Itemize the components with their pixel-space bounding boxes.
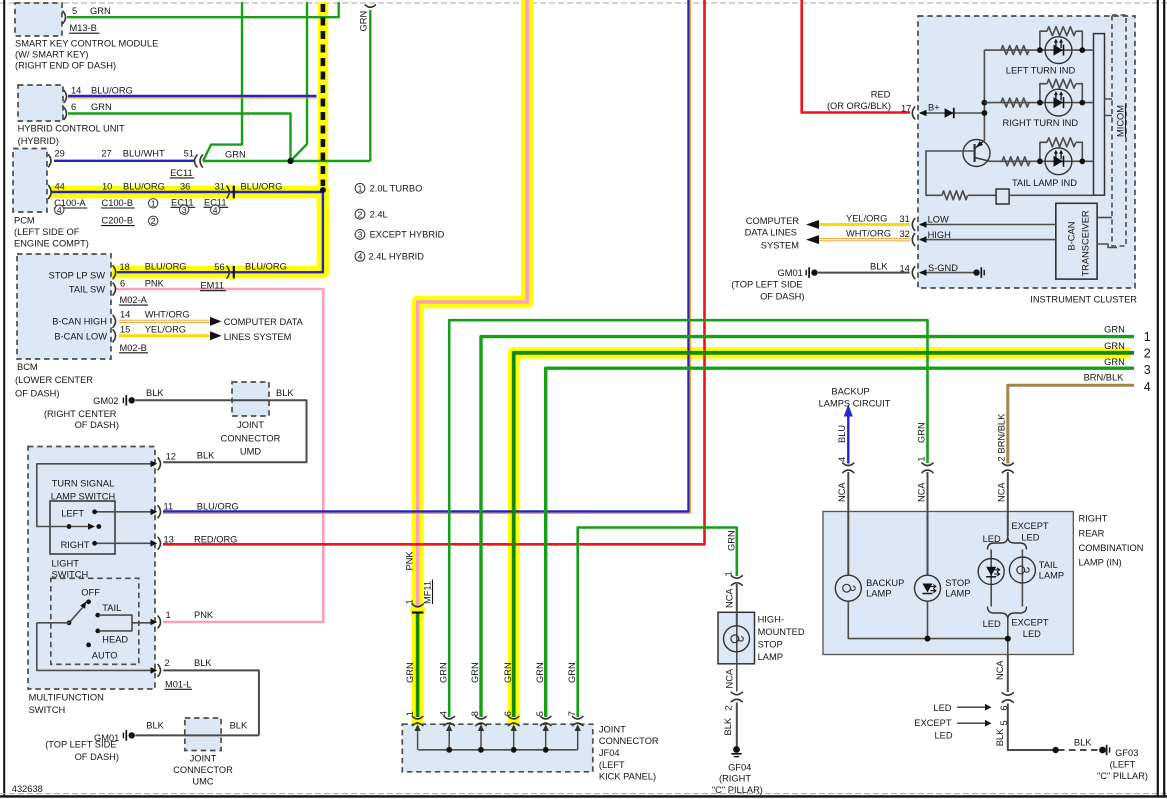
svg-text:M02-B: M02-B	[120, 343, 147, 353]
svg-text:LIGHT: LIGHT	[52, 559, 80, 569]
svg-text:4: 4	[358, 252, 363, 262]
svg-text:BRN/BLK: BRN/BLK	[1084, 373, 1125, 383]
connector BCM pin6	[113, 283, 116, 295]
svg-text:PNK: PNK	[145, 279, 165, 289]
node B+ junction	[982, 110, 988, 116]
connector BCM pin18	[113, 266, 116, 279]
wire pin11 orange stripe	[163, 0, 690, 513]
wire hmsl through bulb	[736, 626, 738, 692]
svg-text:CONNECTOR: CONNECTOR	[173, 765, 233, 775]
svg-text:LAMP: LAMP	[866, 589, 891, 599]
highlight blob junction dashed line	[316, 185, 330, 199]
svg-text:BACKUP: BACKUP	[866, 578, 904, 588]
connector JF04 pin5	[541, 716, 551, 725]
wire TAIL HEAD to pin1	[99, 615, 152, 631]
highlight band GRN circuit 2	[514, 353, 1130, 717]
svg-text:1: 1	[724, 571, 734, 576]
svg-text:CONNECTOR: CONNECTOR	[221, 433, 281, 443]
svg-text:DATA LINES: DATA LINES	[745, 227, 797, 237]
svg-text:COMBINATION: COMBINATION	[1079, 543, 1144, 553]
label stop lamp	[945, 578, 970, 599]
node turn signal wiper tip	[96, 524, 101, 529]
wire GRN branch to top via x307	[291, 2, 307, 161]
highlight band dashed continuation line	[318, 2, 329, 190]
wire light switch common to pin2	[37, 623, 152, 671]
svg-text:TRANSCEIVER: TRANSCEIVER	[1081, 210, 1091, 276]
label pin12	[166, 451, 216, 462]
transistor Q1	[963, 140, 990, 167]
label GM02	[44, 396, 119, 430]
node light switch pivot	[67, 620, 72, 625]
svg-text:1: 1	[166, 610, 171, 620]
svg-text:ENGINE COMPT): ENGINE COMPT)	[14, 238, 89, 248]
svg-text:GRN: GRN	[535, 662, 545, 683]
svg-text:432638: 432638	[12, 784, 43, 794]
svg-text:LAMPS CIRCUIT: LAMPS CIRCUIT	[819, 399, 891, 409]
node AUTO contact	[86, 643, 91, 648]
wire GRN JF04 pin4 loop to stop lamp feed	[449, 320, 927, 717]
svg-text:4: 4	[439, 711, 449, 716]
wire RED/ORG turn signal pin13	[163, 0, 705, 544]
connector EM11 inline	[227, 266, 234, 278]
svg-text:STOP: STOP	[945, 578, 970, 588]
label PCM pin29 row	[55, 149, 246, 178]
label GRN JF04 pin5	[535, 662, 545, 716]
svg-text:11: 11	[164, 502, 174, 512]
wire YEL/ORG B-CAN LOW bcm side	[119, 334, 210, 337]
node tail row left	[1037, 158, 1043, 164]
turn signal lamp switch box	[50, 501, 115, 554]
svg-text:GRN: GRN	[1104, 357, 1125, 367]
BCM box	[17, 254, 111, 359]
wire S-GND internal	[920, 272, 975, 274]
node right turn right	[1079, 100, 1085, 106]
wire BLK cluster S-GND pin14	[818, 272, 910, 274]
label pin11	[164, 502, 239, 512]
label UMD wires	[146, 388, 294, 398]
connector JF04 pin8	[476, 716, 486, 725]
connector JF04 pin7	[573, 716, 583, 725]
svg-text:5: 5	[72, 6, 77, 16]
wire GRN below MF11 to JF04 pin1	[416, 613, 420, 717]
node dashed line junction	[320, 187, 326, 193]
node left turn right	[1079, 47, 1085, 53]
svg-text:NCA: NCA	[996, 482, 1006, 502]
highlight band BLU/ORG circuit	[50, 192, 323, 272]
instrument cluster box	[918, 16, 1135, 288]
label S-GND pin14	[870, 261, 958, 273]
svg-text:14: 14	[120, 309, 130, 319]
svg-text:(LEFT: (LEFT	[1110, 760, 1136, 770]
right rear combination lamp box	[823, 512, 1073, 655]
label high mounted stop lamp	[758, 615, 805, 663]
svg-text:36: 36	[180, 181, 190, 191]
wire tail LED branch	[990, 550, 992, 607]
label RED wire	[827, 89, 891, 111]
highlight blob connector MF11	[410, 603, 425, 618]
diode B+	[945, 108, 954, 118]
svg-text:6: 6	[120, 279, 125, 289]
label LOW pin31	[846, 213, 949, 224]
label GRN right edge 3	[1104, 357, 1151, 377]
svg-text:TAIL: TAIL	[102, 603, 121, 613]
LED right turn indicator	[1045, 89, 1072, 116]
wire GRN JF04 pin7 to high mounted stop lamp	[578, 528, 737, 718]
resistor left turn	[1001, 46, 1029, 55]
label backup lamp	[866, 578, 904, 599]
connector tail feed	[1002, 463, 1013, 473]
svg-text:MF11: MF11	[423, 581, 433, 604]
brace tail lamp merge bottom	[988, 607, 1027, 620]
svg-text:S-GND: S-GND	[928, 263, 958, 273]
label GM01 top	[731, 268, 804, 301]
svg-text:TAIL LAMP IND: TAIL LAMP IND	[1012, 178, 1077, 188]
label circled 3	[180, 205, 189, 215]
svg-text:BLK: BLK	[870, 261, 888, 271]
label right rear combination lamp	[1079, 514, 1144, 568]
highlight blob JF04 pin6	[508, 714, 520, 726]
svg-text:GRN: GRN	[503, 662, 513, 683]
wire BLU/WHT PCM pin29	[54, 160, 195, 162]
label circled 4 under EC11	[211, 205, 220, 215]
svg-text:3: 3	[358, 230, 363, 240]
connector hybrid pin14	[64, 91, 67, 103]
svg-text:GM01: GM01	[778, 268, 803, 278]
label GM01 bottom	[45, 733, 119, 762]
label LED except LED bottom	[983, 617, 1049, 639]
svg-text:OF DASH): OF DASH)	[75, 420, 119, 430]
wire BLK GM02 to UMD to pin12	[135, 400, 306, 462]
right turn bypass resistor loop	[1040, 79, 1082, 102]
svg-text:GRN: GRN	[359, 11, 369, 32]
wire NCA stop below connector	[927, 472, 929, 576]
connector PCM pin44	[49, 186, 52, 199]
svg-text:YEL/ORG: YEL/ORG	[846, 213, 887, 223]
svg-text:1: 1	[358, 183, 363, 193]
backup lamps circuit arrow	[844, 405, 853, 417]
svg-text:EXCEPT: EXCEPT	[914, 718, 952, 728]
label joint connector UMD	[221, 420, 281, 456]
svg-text:GRN: GRN	[1104, 325, 1125, 335]
highlight blob connector 31	[224, 185, 239, 200]
svg-text:NCA: NCA	[917, 482, 927, 502]
connector M13-B pin5	[63, 11, 66, 23]
svg-text:LEFT TURN IND: LEFT TURN IND	[1006, 65, 1076, 75]
svg-text:1: 1	[1144, 330, 1151, 344]
arrow into pin32	[919, 236, 927, 243]
svg-text:B-CAN HIGH: B-CAN HIGH	[52, 317, 107, 327]
svg-text:BLU/ORG: BLU/ORG	[145, 261, 187, 271]
label GF04	[712, 763, 763, 795]
label GF03	[1097, 748, 1148, 781]
svg-text:GM02: GM02	[93, 396, 118, 406]
svg-text:COMPUTER DATA: COMPUTER DATA	[224, 317, 304, 327]
svg-text:5: 5	[999, 720, 1009, 725]
label circled 4 under C100-A	[55, 205, 64, 215]
label circled 1	[149, 198, 158, 208]
label hybrid pins	[71, 85, 133, 112]
svg-text:(W/ SMART KEY): (W/ SMART KEY)	[15, 50, 89, 60]
connector multifunction pin1	[151, 616, 161, 628]
svg-text:UMD: UMD	[240, 446, 261, 456]
label GRN JF04 pin8	[470, 662, 480, 716]
label GRN right edge 1	[1104, 325, 1151, 344]
label PCM pin44 row	[55, 181, 283, 191]
ground S-GND	[973, 267, 984, 278]
svg-text:12: 12	[166, 452, 176, 462]
svg-text:10: 10	[102, 181, 112, 191]
svg-text:(HYBRID): (HYBRID)	[18, 136, 59, 146]
svg-text:LED: LED	[933, 703, 951, 713]
node bus tail	[1005, 636, 1011, 642]
node RIGHT contact	[92, 541, 97, 546]
svg-text:15: 15	[120, 324, 130, 334]
svg-text:LAMP: LAMP	[758, 652, 783, 662]
wire GRN JF04 pin6 highlighted to right edge 2	[514, 353, 1134, 717]
connector cluster pin32	[912, 234, 915, 246]
svg-text:2: 2	[997, 456, 1007, 461]
smart key control module box	[15, 3, 62, 36]
label MICOM rotated	[1116, 105, 1126, 138]
light switch box	[51, 578, 139, 664]
label legend engine variants	[355, 183, 445, 261]
square element	[996, 189, 1009, 204]
label BCM b-can high row	[52, 309, 303, 327]
svg-text:LAMP (IN): LAMP (IN)	[1079, 558, 1122, 568]
label multifunction switch	[29, 693, 104, 716]
svg-text:NCA: NCA	[725, 588, 735, 608]
svg-text:JF04: JF04	[599, 748, 620, 758]
wire WHT/ORG cluster HIGH pin32	[819, 239, 910, 241]
wire NCA combination lamp ground lead	[1008, 655, 1056, 750]
svg-text:SMART KEY CONTROL MODULE: SMART KEY CONTROL MODULE	[15, 38, 158, 48]
svg-text:GRN: GRN	[225, 150, 246, 160]
connector cluster pin31	[912, 219, 915, 231]
svg-text:BACKUP: BACKUP	[831, 386, 869, 396]
svg-text:2: 2	[358, 209, 363, 219]
wire cluster collector bus vertical	[983, 50, 985, 140]
svg-text:BLK: BLK	[276, 388, 294, 398]
JF04 pin arrows	[414, 724, 581, 750]
page frame right double	[1157, 0, 1159, 797]
svg-text:GRN: GRN	[1104, 341, 1125, 351]
svg-text:7: 7	[567, 711, 577, 716]
svg-text:(RIGHT CENTER: (RIGHT CENTER	[44, 409, 117, 419]
svg-text:C200-B: C200-B	[102, 216, 134, 226]
connector JF04 pin4	[444, 716, 454, 725]
svg-text:4: 4	[213, 205, 218, 215]
wire BRN/BLK tail lamp to right edge 4	[1008, 385, 1134, 463]
svg-text:B-CAN: B-CAN	[1067, 222, 1077, 251]
svg-text:KICK PANEL): KICK PANEL)	[599, 771, 656, 781]
svg-text:COMPUTER: COMPUTER	[746, 216, 799, 226]
label GRN JF04 pin7	[567, 662, 577, 716]
wire GRN pin51 EC11 horizontal	[203, 160, 370, 162]
connector top edge GRN	[365, 5, 375, 7]
svg-text:44: 44	[55, 181, 65, 191]
svg-text:(RIGHT END OF DASH): (RIGHT END OF DASH)	[15, 61, 116, 71]
svg-text:(LEFT SIDE OF: (LEFT SIDE OF	[14, 227, 80, 237]
wire PNK tail sw pin6 loop	[116, 289, 323, 622]
svg-text:CONNECTOR: CONNECTOR	[599, 736, 659, 746]
node right turn branch	[982, 100, 988, 106]
svg-text:1: 1	[405, 711, 415, 716]
arrow LED pin6	[957, 704, 992, 711]
brace tail lamp split top	[988, 537, 1027, 550]
svg-text:BLK: BLK	[146, 388, 164, 398]
wire GRN smart key pin5	[67, 2, 339, 17]
wire WHT/ORG B-CAN HIGH bcm side	[119, 320, 210, 322]
tail bypass resistor loop	[1040, 138, 1082, 162]
svg-text:13: 13	[164, 534, 174, 544]
label HIGH pin32	[846, 229, 951, 240]
connector hybrid pin6	[64, 108, 67, 120]
wire BLU/ORG turn signal pin11	[163, 0, 689, 512]
connector 31 inline	[227, 186, 234, 198]
wire GRN hybrid pin6	[68, 114, 291, 162]
svg-text:JOINT: JOINT	[599, 724, 626, 734]
wire backup lamp to bus	[848, 601, 1008, 639]
svg-text:6: 6	[503, 711, 513, 716]
wire BLK hmsl to GF04	[736, 703, 738, 747]
svg-text:NCA: NCA	[995, 660, 1005, 680]
left turn row wire	[984, 49, 1093, 51]
micom bus bar	[1094, 34, 1105, 196]
label B-CAN transceiver rotated	[1067, 210, 1091, 276]
node turn signal common	[67, 524, 72, 529]
svg-text:M02-A: M02-A	[120, 295, 148, 305]
svg-text:JOINT: JOINT	[190, 754, 217, 764]
ground GM01 top	[806, 267, 818, 278]
svg-text:LED: LED	[935, 731, 953, 741]
label circled 2	[149, 216, 158, 226]
node right turn left	[1037, 100, 1043, 106]
svg-text:BLK: BLK	[146, 720, 164, 730]
svg-text:LED: LED	[983, 534, 1001, 544]
connector combination ground lead	[1002, 693, 1013, 703]
svg-text:BLU/ORG: BLU/ORG	[197, 502, 239, 512]
wire pin12 internal common	[37, 464, 152, 527]
svg-text:1: 1	[151, 198, 156, 208]
ground GM01 bottom	[123, 730, 134, 741]
svg-text:GRN: GRN	[727, 530, 737, 551]
left turn bypass resistor loop	[1040, 27, 1082, 50]
joint connector UMD box	[232, 382, 269, 416]
svg-text:2: 2	[1144, 347, 1151, 361]
svg-text:BLK: BLK	[723, 717, 733, 735]
svg-text:(TOP LEFT SIDE: (TOP LEFT SIDE	[731, 279, 802, 289]
label UMC wires	[146, 720, 248, 730]
label EXCEPT LED arrow pin5	[914, 718, 953, 741]
wire cluster B+ internal	[920, 112, 984, 114]
connector cluster pin17	[912, 107, 915, 119]
bulb tail lamp	[1009, 557, 1035, 583]
LED stop lamp	[915, 575, 941, 601]
svg-text:LED: LED	[1023, 629, 1041, 639]
wire BLK multifunction pin2 to UMC to GM01	[135, 670, 259, 735]
micom tab upper	[1105, 99, 1113, 116]
svg-text:BLU/WHT: BLU/WHT	[123, 149, 165, 159]
svg-text:2: 2	[165, 658, 170, 668]
label pin17 B+	[901, 103, 940, 114]
arrow computer data lines top	[210, 317, 222, 326]
svg-text:LAMP SWITCH: LAMP SWITCH	[51, 491, 115, 501]
connector JF04 pin6	[509, 716, 519, 725]
arrow EXCEPT LED pin5	[957, 720, 992, 727]
connector BCM pin14	[113, 315, 116, 327]
label MF11 rotated	[423, 580, 433, 605]
svg-text:RIGHT TURN IND: RIGHT TURN IND	[1003, 118, 1079, 128]
svg-text:17: 17	[901, 103, 911, 113]
svg-text:HIGH-: HIGH-	[758, 615, 784, 625]
B-CAN transceiver box	[1056, 203, 1097, 279]
svg-text:LOW: LOW	[928, 215, 949, 225]
connector stop feed	[922, 463, 933, 473]
wire NCA tail below connector	[1007, 472, 1009, 536]
svg-text:AUTO: AUTO	[92, 651, 118, 661]
light switch lever	[69, 601, 87, 623]
hybrid control unit box	[18, 85, 63, 121]
svg-text:TURN SIGNAL: TURN SIGNAL	[52, 479, 115, 489]
LED tail lamp	[978, 559, 1004, 585]
svg-text:TAIL: TAIL	[1039, 560, 1058, 570]
bulb backup lamp	[835, 575, 861, 601]
svg-text:REAR: REAR	[1079, 528, 1105, 538]
tail lamp row wire	[989, 160, 1094, 162]
resistor right turn	[1001, 98, 1029, 107]
svg-text:MULTIFUNCTION: MULTIFUNCTION	[29, 693, 104, 703]
wire tail bulb branch	[1021, 550, 1023, 607]
wire BLU/ORG pin14 orange stripe	[68, 97, 317, 99]
svg-text:MICOM: MICOM	[1116, 105, 1126, 137]
svg-text:(LOWER CENTER: (LOWER CENTER	[15, 375, 93, 385]
svg-text:GRN: GRN	[470, 662, 480, 683]
label turn signal lamp switch	[51, 479, 115, 502]
svg-text:14: 14	[71, 85, 81, 95]
svg-text:4: 4	[57, 205, 62, 215]
svg-text:HYBRID CONTROL UNIT: HYBRID CONTROL UNIT	[18, 124, 125, 134]
svg-text:MOUNTED: MOUNTED	[758, 627, 805, 637]
ground GF03	[1099, 745, 1110, 755]
svg-text:(OR ORG/BLK): (OR ORG/BLK)	[827, 101, 891, 111]
label joint connector JF04	[599, 724, 659, 781]
svg-text:C100-B: C100-B	[102, 198, 134, 208]
svg-text:LAMP: LAMP	[1039, 570, 1064, 580]
svg-text:29: 29	[55, 149, 65, 159]
label BCM stop lp sw row	[49, 261, 287, 290]
svg-text:PCM: PCM	[14, 216, 35, 226]
label PCM name	[14, 216, 89, 249]
svg-text:EXCEPT: EXCEPT	[1011, 617, 1049, 627]
svg-text:56: 56	[214, 262, 224, 272]
svg-text:BLK: BLK	[197, 451, 215, 461]
connector hmsl feed	[731, 576, 742, 586]
ground GF04	[731, 746, 741, 757]
highlight blob JF04 pin1	[412, 714, 424, 726]
node TAIL contact	[95, 613, 100, 618]
svg-text:STOP LP SW: STOP LP SW	[49, 271, 106, 281]
svg-text:RED/ORG: RED/ORG	[194, 534, 237, 544]
svg-text:LINES SYSTEM: LINES SYSTEM	[224, 332, 292, 342]
label tail lamp	[1039, 560, 1064, 581]
highlight band PNK/GRN circuit	[418, 0, 528, 717]
svg-text:1: 1	[917, 456, 927, 461]
svg-text:WHT/ORG: WHT/ORG	[145, 309, 190, 319]
svg-text:HIGH: HIGH	[928, 230, 951, 240]
arrow into pin17	[919, 110, 927, 117]
svg-text:BLU: BLU	[837, 425, 847, 443]
svg-text:GRN: GRN	[439, 662, 449, 683]
